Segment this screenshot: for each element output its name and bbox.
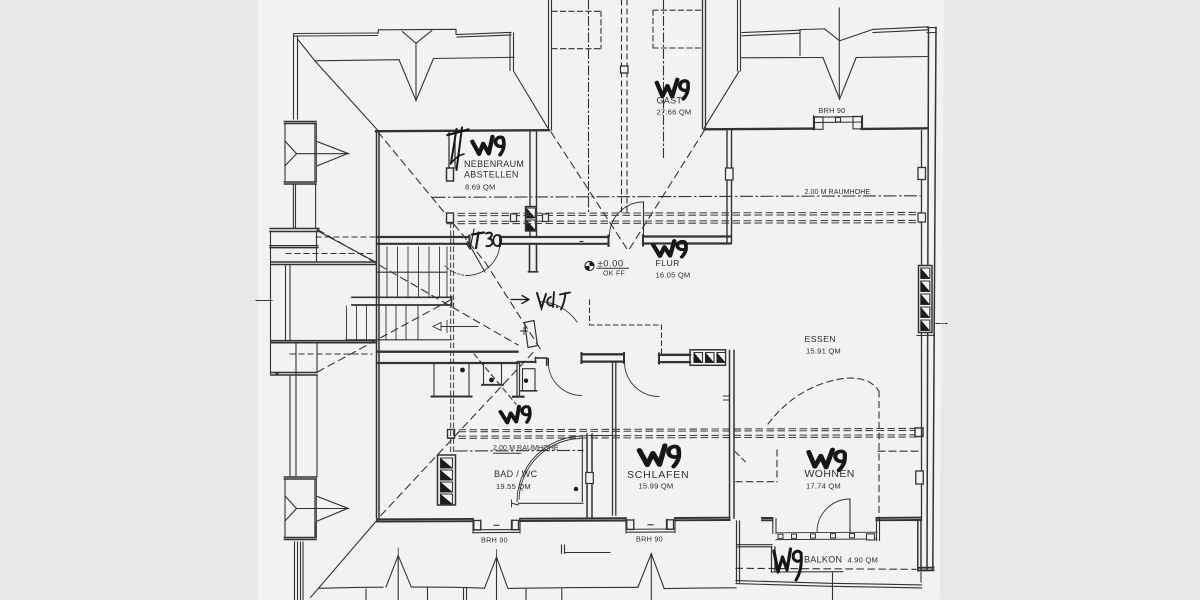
eave line right section (742, 57, 927, 58)
skylight dashed rect 2 (653, 10, 702, 48)
west wall double (stair shaft wall) (377, 132, 380, 519)
svg-text:BAD / WC: BAD / WC (494, 469, 538, 479)
square marker on pair (621, 66, 629, 73)
gable 3 (638, 554, 664, 589)
chimney double line (738, 0, 741, 71)
room label BALKON W9 (774, 549, 801, 580)
FLUR door arc (610, 202, 644, 236)
vent box 3 cells between FLUR and SCHLAFEN (690, 350, 726, 366)
BAD window (473, 520, 520, 534)
svg-text:FLUR: FLUR (656, 258, 680, 268)
dormer 2 ridge (297, 508, 350, 510)
dashed B0 from lower bay corner (318, 299, 454, 373)
svg-text:ABSTELLEN: ABSTELLEN (464, 170, 519, 180)
upper flight treads (387, 247, 447, 297)
chimney bottom verticals (295, 522, 317, 600)
band A (377, 352, 518, 363)
dashed double wall upper (447, 212, 920, 215)
left wall double (294, 34, 298, 119)
top wall right section with window gap (705, 127, 815, 130)
top edge double line left (294, 33, 378, 36)
room label GAST W9 (656, 79, 688, 99)
svg-text:NEBENRAUM: NEBENRAUM (464, 159, 524, 169)
balcony door arc (817, 499, 850, 532)
dormer 2 top band (285, 477, 317, 479)
door jamb rect (447, 168, 454, 181)
BAD corridor door arc (548, 362, 581, 396)
wing verticals (286, 265, 291, 341)
svg-text:4.90 QM: 4.90 QM (848, 556, 879, 565)
bay hip diagonal (317, 231, 376, 263)
WOHNEN bottom wall (762, 518, 773, 520)
stair mid rail (377, 271, 447, 273)
T30 door arc (468, 242, 501, 276)
jog down stub + tick (517, 364, 520, 396)
room label WOHNEN W9 (808, 448, 846, 470)
GAST left wall double (549, 0, 552, 130)
svg-text:BALKON: BALKON (804, 555, 842, 565)
balcony outer edge (736, 581, 922, 588)
dormer 2 notch left (285, 496, 297, 521)
NEBENRAUM east wall double (530, 132, 537, 206)
svg-text:GAST: GAST (657, 96, 683, 106)
gable box top (378, 29, 456, 34)
short dashed in BAD (474, 354, 516, 404)
eave double lines right section (742, 30, 800, 36)
band C right of FLUR door (643, 237, 730, 244)
hip to NEBENRAUM eave corner (514, 71, 550, 130)
bottom right wall corner (918, 521, 921, 570)
notches on inner wall (918, 168, 926, 180)
bay band lower edge (270, 246, 318, 248)
SCHLAFEN window (626, 519, 675, 533)
room label FLUR W9 (653, 240, 686, 258)
right wall outer double (927, 28, 936, 571)
dashed valley L4 (378, 353, 533, 519)
hip bottom-left solid (311, 519, 379, 598)
raumhoehe dash-dot lower (455, 449, 583, 452)
svg-text:BRH 90: BRH 90 (819, 106, 846, 115)
fixture 2 (484, 364, 502, 385)
room label NEBENRAUM W9 (472, 136, 504, 156)
Vd.T handwritten with arrow (511, 292, 570, 310)
bay sides (271, 231, 317, 375)
valley center line (415, 43, 417, 101)
dormer 2 arrow right (317, 497, 347, 522)
eave line left (315, 60, 399, 61)
dormer arrow right (317, 142, 347, 166)
BAD inner door arc (517, 436, 582, 502)
svg-text:WOHNEN: WOHNEN (805, 468, 855, 480)
GAST right wall double (703, 0, 706, 129)
GAST upper-left corner vertical double (510, 33, 514, 71)
svg-text:27.66 QM: 27.66 QM (657, 108, 692, 117)
roof hip top-left corner (298, 39, 378, 130)
T30 handwritten (466, 229, 501, 249)
dormer ridge (297, 153, 350, 155)
hinge cross (521, 328, 528, 335)
T30 door leaf (468, 242, 486, 273)
wall shaft column 5 cells (919, 266, 933, 333)
threshold line (512, 503, 583, 505)
tick on band C (580, 241, 583, 243)
GAST valley dashed left (551, 132, 629, 252)
bad east wall lower (587, 434, 592, 518)
gable 1 (386, 556, 411, 587)
dash-dot tick outside wall (936, 323, 947, 325)
dashed hidden walls left of stairs (316, 236, 377, 238)
washbasin rect (434, 364, 469, 397)
Y gable ridge (403, 31, 432, 44)
raumhoehe dash-dot upper (433, 196, 920, 198)
bay band double (270, 229, 319, 232)
square markers (447, 213, 454, 223)
FLUR dashed niche (589, 300, 591, 325)
svg-text:15.91 QM: 15.91 QM (806, 347, 841, 356)
dormer bottom band (285, 182, 317, 184)
WC rect (523, 369, 536, 391)
east wall lower stub (530, 231, 537, 237)
NEBENRAUM eave wall (376, 130, 549, 131)
dashed valley L1 (378, 132, 541, 350)
dashed D5 from bay corner (318, 230, 519, 346)
band y372 (271, 373, 317, 376)
schlafen west wall upper (613, 363, 616, 516)
step tick (917, 334, 934, 336)
NEBENRAUM/GAST partition upper (449, 132, 455, 168)
wing wall lower (271, 341, 377, 343)
verticals below (290, 343, 317, 477)
svg-text:8.69 QM: 8.69 QM (465, 183, 496, 192)
top edge double right (873, 27, 928, 33)
svg-text:SCHLAFEN: SCHLAFEN (627, 469, 689, 481)
svg-text:OK FF: OK FF (603, 271, 625, 278)
svg-text:15.99 QM: 15.99 QM (639, 482, 674, 491)
room label SCHLAFEN W9 (639, 445, 679, 467)
band A (377, 237, 470, 244)
window top jamb boxes (815, 117, 824, 130)
room label BAD W9 (500, 405, 531, 424)
T30 arc lower continuation (445, 266, 468, 276)
ESSEN west partition (727, 131, 732, 244)
dashed verticals to BAD shaft (451, 223, 454, 455)
Vd.T door arc (539, 302, 577, 323)
svg-text:17.74 QM: 17.74 QM (806, 482, 841, 491)
center gable vertical (838, 8, 840, 99)
dormer 2 sides (285, 479, 316, 537)
right wall top cap (927, 28, 936, 33)
big V valley right (823, 58, 856, 100)
top edge double line right of gable (457, 32, 511, 37)
gable box center-right (800, 29, 825, 55)
stair arrow (441, 326, 478, 328)
mid landing rail band (352, 297, 452, 305)
ticks below eave (366, 588, 562, 600)
SCHLAFEN door arc (625, 362, 660, 397)
WOHNEN dashed corner (736, 481, 777, 483)
ridge dash-dot line 2 (663, 0, 665, 160)
Vd.T tilted door leaf (525, 321, 538, 348)
center cross stub below (529, 245, 538, 272)
white notch on wall (586, 473, 594, 484)
skylight dashed rect 1 (552, 11, 601, 48)
band B after T30 (500, 237, 609, 244)
WOHNEN window band (773, 519, 776, 534)
gable 2 (485, 557, 508, 588)
paper sheet (258, 0, 944, 600)
svg-text:BRH 90: BRH 90 (636, 535, 663, 544)
svg-text:BRH 90: BRH 90 (481, 536, 508, 545)
svg-text:ESSEN: ESSEN (805, 334, 836, 344)
left edge tick (256, 300, 272, 302)
wall under Vd.T (518, 361, 536, 363)
center dashed pair (622, 0, 628, 213)
hip right section NW (705, 72, 740, 128)
dormer top band (285, 122, 317, 124)
benchmark symbol (585, 261, 594, 270)
BAD shaft 4 cells (438, 455, 456, 505)
chimney cap bottom (285, 538, 317, 540)
dormer sides (285, 124, 316, 183)
svg-text:16.05 QM: 16.05 QM (656, 271, 691, 280)
WOHNEN balcony door leaf (849, 499, 851, 532)
small V top (825, 29, 873, 41)
ridge dash-dot line 1 (588, 0, 590, 213)
window top sill double (814, 117, 863, 123)
lower rail (346, 339, 452, 341)
band C (659, 355, 690, 362)
eave line right (434, 57, 515, 58)
lower flight treads (347, 306, 419, 340)
shaft box corridor (2 cells) (526, 207, 537, 232)
hand glyph T-bar (448, 128, 469, 171)
BAD inner door leaf (581, 436, 583, 502)
right wall inner line (921, 131, 923, 521)
svg-text:19.55 QM: 19.55 QM (496, 482, 531, 491)
dormer notch left (285, 141, 297, 166)
window box lower frame (562, 545, 611, 554)
FLUR door leaf (643, 202, 645, 236)
window top: recess verticals (814, 116, 863, 130)
dot (275, 372, 278, 375)
svg-text:2.00 M RAUMHOHE: 2.00 M RAUMHOHE (493, 445, 559, 452)
GAST valley dashed right (628, 131, 705, 252)
chimney verticals 2 (293, 184, 315, 228)
big V valley (399, 59, 434, 101)
bay bottom band / wall (271, 262, 376, 265)
band B (BAD to SCHLAFEN doors) (582, 354, 625, 361)
svg-text:2.00 M RAUMHOHE: 2.00 M RAUMHOHE (805, 189, 871, 196)
